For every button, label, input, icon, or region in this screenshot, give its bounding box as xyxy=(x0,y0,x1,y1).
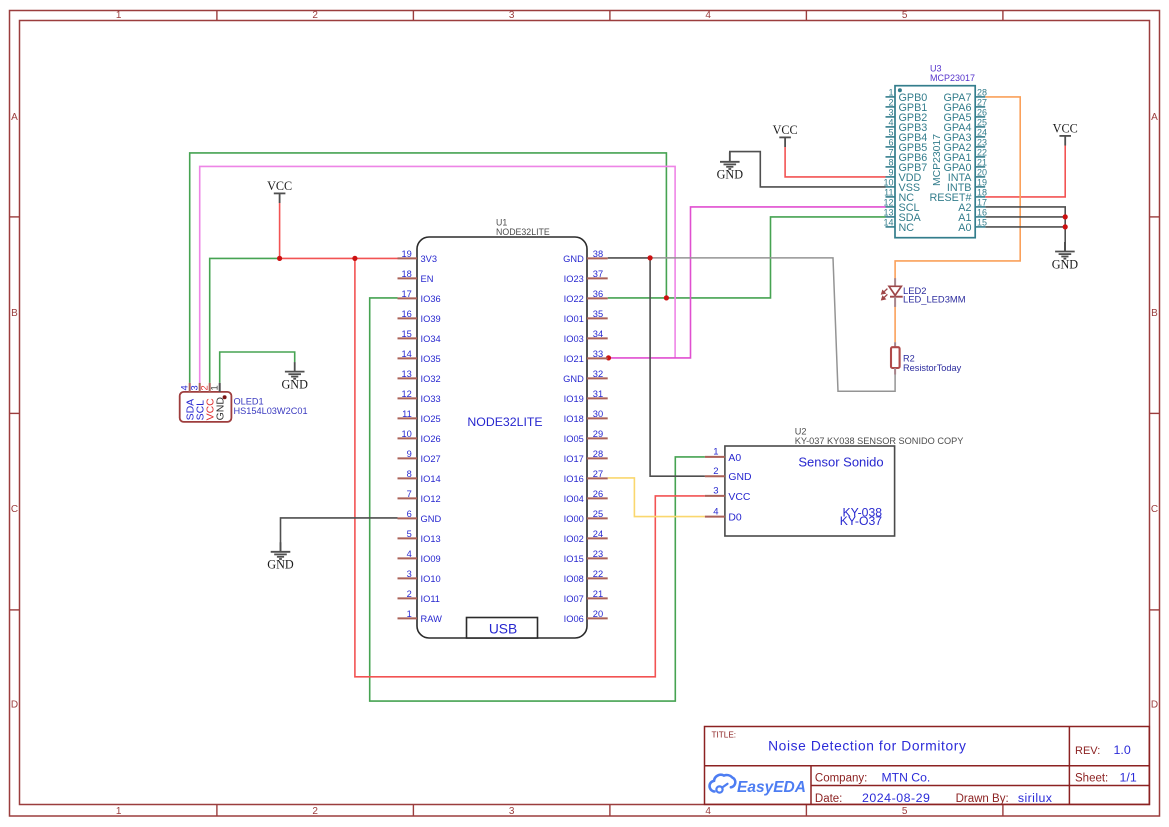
U1 pin 20 (IO06) xyxy=(564,609,608,624)
U3 pin 21 (GPA0) xyxy=(943,158,987,174)
svg-text:4: 4 xyxy=(888,118,893,128)
U1 pin 12 (IO33) xyxy=(398,389,441,404)
svg-text:IO11: IO11 xyxy=(421,594,440,604)
svg-text:19: 19 xyxy=(977,178,987,188)
svg-text:5: 5 xyxy=(888,128,893,138)
svg-text:3: 3 xyxy=(190,385,200,390)
svg-text:Drawn By:: Drawn By: xyxy=(956,793,1009,805)
svg-text:IO25: IO25 xyxy=(421,414,441,424)
svg-text:D: D xyxy=(11,700,18,711)
svg-text:19: 19 xyxy=(401,249,411,259)
U3 pin 28 (GPA7) xyxy=(943,88,987,104)
U3 pin 3 (GPB2) xyxy=(886,108,928,124)
svg-text:B: B xyxy=(1151,308,1158,319)
svg-text:5: 5 xyxy=(407,529,412,539)
frame zone letters left xyxy=(11,112,18,711)
svg-text:16: 16 xyxy=(401,309,411,319)
svg-text:A: A xyxy=(1151,112,1158,123)
svg-text:17: 17 xyxy=(977,198,987,208)
svg-text:IO23: IO23 xyxy=(564,274,584,284)
svg-text:VCC: VCC xyxy=(773,123,798,137)
svg-text:1: 1 xyxy=(888,88,893,98)
U1 pin 3 (IO10) xyxy=(398,569,441,584)
wire net GND dark gray (U1 GND pin 6 to GND symbol) xyxy=(281,518,398,552)
svg-text:7: 7 xyxy=(888,148,893,158)
U3 pin 10 (VSS) xyxy=(883,178,920,194)
svg-text:3: 3 xyxy=(888,108,893,118)
U3 pin 2 (GPB1) xyxy=(886,98,928,114)
power flag VCC (left, above U1 3V3) xyxy=(267,179,292,203)
svg-text:IO17: IO17 xyxy=(564,454,584,464)
wire net GND dark gray (junction down to U2 GND pin 2) xyxy=(650,258,705,476)
svg-text:Sheet:: Sheet: xyxy=(1075,773,1108,785)
svg-text:2: 2 xyxy=(312,806,318,817)
U1 pin 9 (IO27) xyxy=(398,449,441,464)
svg-text:NODE32LITE: NODE32LITE xyxy=(496,227,550,237)
svg-text:C: C xyxy=(11,504,18,515)
wire net GND dark gray (U3 VSS pin 10 to GND symbol) xyxy=(730,152,886,187)
U1 pin 27 (IO16) xyxy=(564,469,608,484)
svg-text:GND: GND xyxy=(421,514,442,524)
junction dot at (608.5,357.9) xyxy=(606,355,611,360)
svg-text:IO00: IO00 xyxy=(564,514,584,524)
U2 pin 1 (A0) xyxy=(705,447,741,464)
svg-text:IO32: IO32 xyxy=(421,374,441,384)
svg-text:IO27: IO27 xyxy=(421,454,441,464)
svg-text:6: 6 xyxy=(888,138,893,148)
svg-text:C: C xyxy=(1151,504,1158,515)
svg-text:18: 18 xyxy=(977,188,987,198)
svg-text:GND: GND xyxy=(1052,257,1079,271)
U3 pin 14 (NC) xyxy=(883,218,914,234)
svg-text:GND: GND xyxy=(215,397,227,421)
svg-text:6: 6 xyxy=(407,509,412,519)
svg-text:GND: GND xyxy=(267,558,294,572)
junction dot at (650.1,257.9) xyxy=(648,255,653,260)
wire net IO36-A0 green (U1 IO36 to U2 A0) xyxy=(370,298,705,701)
U3 pin 24 (GPA3) xyxy=(943,128,987,144)
power flag VCC (middle, to U3 VDD) xyxy=(773,123,798,147)
svg-text:24: 24 xyxy=(977,128,987,138)
svg-text:A0: A0 xyxy=(728,453,741,464)
svg-text:31: 31 xyxy=(593,389,603,399)
U3 pin 17 (A2) xyxy=(958,198,987,214)
title block outline xyxy=(705,727,1150,805)
svg-text:IO10: IO10 xyxy=(421,574,441,584)
U1 pin 33 (IO21) xyxy=(564,349,608,364)
svg-text:15: 15 xyxy=(977,218,987,228)
svg-text:11: 11 xyxy=(884,188,893,198)
svg-text:A0: A0 xyxy=(958,222,971,234)
OLED1 pin 3 (SCL) xyxy=(190,383,207,421)
power flag VCC (right, to U3 RESET#) xyxy=(1053,122,1078,146)
frame zone numbers top xyxy=(116,10,908,21)
svg-text:4: 4 xyxy=(713,506,718,517)
svg-text:26: 26 xyxy=(977,108,987,118)
OLED1 pin 2 (VCC) xyxy=(200,383,217,421)
svg-text:28: 28 xyxy=(593,449,603,459)
U3 pin 6 (GPB5) xyxy=(886,138,928,154)
ground symbol GND (below U1 pin 6) xyxy=(267,542,294,571)
svg-text:2: 2 xyxy=(888,98,893,108)
svg-text:IO33: IO33 xyxy=(421,394,441,404)
U3 pin 27 (GPA6) xyxy=(943,98,987,114)
U1 pin 34 (IO03) xyxy=(564,329,608,344)
svg-text:24: 24 xyxy=(593,529,603,539)
svg-text:20: 20 xyxy=(593,609,603,619)
svg-text:GND: GND xyxy=(563,374,584,384)
svg-text:REV:: REV: xyxy=(1075,745,1100,757)
svg-text:EasyEDA: EasyEDA xyxy=(737,779,806,796)
U1 pin 21 (IO07) xyxy=(564,589,608,604)
svg-text:3V3: 3V3 xyxy=(421,254,438,264)
wire net IO22-SDA green (U1 IO22 to U3 SDA) xyxy=(608,217,886,298)
svg-text:32: 32 xyxy=(593,369,603,379)
U1 pin 11 (IO25) xyxy=(398,409,441,424)
svg-text:B: B xyxy=(11,308,18,319)
U1 pin 28 (IO17) xyxy=(564,449,608,464)
svg-text:1: 1 xyxy=(407,609,412,619)
svg-text:EN: EN xyxy=(421,274,434,284)
svg-text:5: 5 xyxy=(902,10,908,21)
svg-text:MCP23017: MCP23017 xyxy=(932,134,943,186)
svg-text:34: 34 xyxy=(593,329,603,339)
svg-text:21: 21 xyxy=(593,589,603,599)
svg-text:U2: U2 xyxy=(795,427,807,437)
U3 pin 16 (A1) xyxy=(958,208,987,224)
U1 pin 37 (IO23) xyxy=(564,269,608,284)
svg-text:10: 10 xyxy=(883,178,893,188)
svg-text:R2: R2 xyxy=(903,353,915,363)
wire net IO22/SDA-OLED green loop (OLED SDA pin 4 to IO22 junction) xyxy=(190,153,667,383)
svg-text:3: 3 xyxy=(509,806,515,817)
svg-text:11: 11 xyxy=(402,409,412,419)
svg-text:22: 22 xyxy=(593,569,603,579)
wire net VCC red (to U1 3V3 pin 19) xyxy=(280,257,398,259)
svg-text:IO35: IO35 xyxy=(421,354,441,364)
svg-text:USB: USB xyxy=(489,622,517,637)
svg-text:5: 5 xyxy=(902,806,908,817)
svg-text:NC: NC xyxy=(899,222,915,234)
svg-text:1: 1 xyxy=(116,10,122,21)
wire net IO16-D0 yellow (U1 IO16 to U2 D0) xyxy=(608,478,705,517)
svg-text:IO18: IO18 xyxy=(564,414,584,424)
svg-text:VCC: VCC xyxy=(267,179,292,193)
svg-text:29: 29 xyxy=(593,429,603,439)
svg-text:18: 18 xyxy=(401,269,411,279)
svg-text:13: 13 xyxy=(883,208,893,218)
svg-text:1: 1 xyxy=(210,385,220,390)
svg-text:IO22: IO22 xyxy=(564,294,584,304)
svg-text:RAW: RAW xyxy=(421,614,443,624)
svg-text:IO09: IO09 xyxy=(421,554,441,564)
svg-text:IO01: IO01 xyxy=(564,314,584,324)
U1 pin 10 (IO26) xyxy=(398,429,441,444)
U1 pin 36 (IO22) xyxy=(564,289,608,304)
svg-text:2024-08-29: 2024-08-29 xyxy=(862,791,930,805)
EasyEDA logo xyxy=(710,775,806,796)
svg-text:2: 2 xyxy=(713,466,718,477)
wire net GND light gray (junction across and down to R2 bottom) xyxy=(650,258,895,391)
svg-text:A: A xyxy=(11,112,18,123)
svg-text:Sensor Sonido: Sensor Sonido xyxy=(798,455,883,470)
display OLED1 HS154L03W2C01 body xyxy=(180,392,308,422)
svg-text:NODE32LITE: NODE32LITE xyxy=(467,415,542,429)
svg-text:TITLE:: TITLE: xyxy=(712,731,737,740)
svg-text:23: 23 xyxy=(593,549,603,559)
wire net VCC red (down and along bottom to U2 VCC pin 3) xyxy=(355,258,705,676)
svg-text:IO06: IO06 xyxy=(564,614,584,624)
svg-text:38: 38 xyxy=(593,249,603,259)
U1 pin 38 (GND) xyxy=(563,249,608,264)
U1 pin 15 (IO34) xyxy=(398,329,441,344)
svg-text:25: 25 xyxy=(593,509,603,519)
U1 pin 1 (RAW) xyxy=(398,609,443,624)
U1 pin 32 (GND) xyxy=(563,369,608,384)
svg-text:9: 9 xyxy=(407,449,412,459)
svg-text:GND: GND xyxy=(281,377,308,391)
U3 pin 20 (INTA) xyxy=(948,168,987,184)
OLED1 pin 4 (SDA) xyxy=(180,383,197,421)
svg-text:22: 22 xyxy=(977,148,987,158)
U1 pin 7 (IO12) xyxy=(398,489,441,504)
svg-text:10: 10 xyxy=(401,429,411,439)
U3 pin 1 (GPB0) xyxy=(886,88,928,104)
LED LED2 LED_LED3MM xyxy=(882,278,966,307)
U1 pin 23 (IO15) xyxy=(564,549,608,564)
svg-text:IO26: IO26 xyxy=(421,434,441,444)
U1 pin 2 (IO11) xyxy=(398,589,440,604)
svg-text:Date:: Date: xyxy=(815,793,843,805)
svg-text:sirilux: sirilux xyxy=(1018,791,1053,805)
U1 pin 5 (IO13) xyxy=(398,529,441,544)
module U1 NODE32LITE body xyxy=(417,218,587,639)
svg-text:7: 7 xyxy=(407,489,412,499)
wire net GND dark gray (U3 A1 pin 16) xyxy=(985,216,1065,218)
svg-text:IO08: IO08 xyxy=(564,574,584,584)
junction dot at (354.9,258.4) xyxy=(352,256,357,261)
svg-text:28: 28 xyxy=(977,88,987,98)
U1 pin 35 (IO01) xyxy=(564,309,608,324)
svg-text:U1: U1 xyxy=(496,218,507,228)
U3 pin 12 (SCL) xyxy=(883,198,919,214)
svg-text:27: 27 xyxy=(977,98,987,108)
U2 pin 4 (D0) xyxy=(705,506,742,523)
svg-text:3: 3 xyxy=(713,486,718,497)
svg-text:IO34: IO34 xyxy=(421,334,441,344)
junction dot at (666.4,297.9) xyxy=(664,295,669,300)
svg-text:27: 27 xyxy=(593,469,603,479)
svg-text:2: 2 xyxy=(312,10,318,21)
svg-text:1: 1 xyxy=(713,447,718,458)
svg-text:3: 3 xyxy=(407,569,412,579)
U1 pin 30 (IO18) xyxy=(564,409,608,424)
svg-text:1/1: 1/1 xyxy=(1120,771,1137,785)
resistor R2 ResistorToday xyxy=(891,342,962,374)
junction dot at (279.6,258.4) xyxy=(277,256,282,261)
svg-text:VCC: VCC xyxy=(728,492,750,503)
svg-text:IO05: IO05 xyxy=(564,434,584,444)
svg-text:33: 33 xyxy=(593,349,603,359)
U1 USB connector box xyxy=(467,618,538,639)
U3 pin 19 (INTB) xyxy=(947,178,987,194)
svg-text:37: 37 xyxy=(593,269,603,279)
U3 pin 9 (VDD) xyxy=(886,168,922,184)
svg-text:KY-037 KY038 SENSOR SONIDO COP: KY-037 KY038 SENSOR SONIDO COPY xyxy=(795,436,964,446)
U1 pin 31 (IO19) xyxy=(564,389,608,404)
U2 pin 3 (VCC) xyxy=(705,486,751,503)
wire net GND-OLED green (OLED GND pin 1 to GND symbol) xyxy=(220,352,295,383)
U3 pin 11 (NC) xyxy=(884,188,914,204)
wire net VCC-OLED green (OLED VCC pin 2 up to 3V3 net) xyxy=(210,258,280,383)
OLED1 pin 1 (GND) xyxy=(210,383,227,421)
U1 pin 14 (IO35) xyxy=(398,349,441,364)
svg-text:14: 14 xyxy=(883,218,893,228)
svg-text:KY-O37: KY-O37 xyxy=(840,514,882,528)
U1 pin 29 (IO05) xyxy=(564,429,608,444)
svg-text:IO12: IO12 xyxy=(421,494,441,504)
frame zone numbers bottom xyxy=(116,806,908,817)
U3 pin 18 (RESET#) xyxy=(929,188,987,204)
wire net SCL light pink (OLED SCL pin 3 loop to IO21) xyxy=(200,166,675,383)
svg-text:13: 13 xyxy=(401,369,411,379)
svg-text:IO02: IO02 xyxy=(564,534,584,544)
U1 pin 22 (IO08) xyxy=(564,569,608,584)
U3 pin 13 (SDA) xyxy=(883,208,921,224)
U3 pin 25 (GPA4) xyxy=(943,118,987,134)
svg-text:LED_LED3MM: LED_LED3MM xyxy=(903,294,966,305)
U2 pin 2 (GND) xyxy=(705,466,752,483)
svg-text:17: 17 xyxy=(401,289,411,299)
svg-text:IO04: IO04 xyxy=(564,494,584,504)
svg-text:26: 26 xyxy=(593,489,603,499)
wire net VCC red (middle VCC symbol to U3 VDD pin 9) xyxy=(785,147,885,177)
svg-text:Company:: Company: xyxy=(815,773,867,785)
svg-text:2: 2 xyxy=(200,385,210,390)
svg-text:IO14: IO14 xyxy=(421,474,441,484)
U3 pin 7 (GPB6) xyxy=(886,148,928,164)
svg-text:ResistorToday: ResistorToday xyxy=(903,363,962,373)
svg-text:IO19: IO19 xyxy=(564,394,584,404)
svg-text:20: 20 xyxy=(977,168,987,178)
svg-text:1: 1 xyxy=(116,806,122,817)
svg-text:GND: GND xyxy=(717,168,744,182)
U1 pin 25 (IO00) xyxy=(564,509,608,524)
U1 pin 16 (IO39) xyxy=(398,309,441,324)
svg-text:IO36: IO36 xyxy=(421,294,441,304)
junction dot at (1065.2,226.9) xyxy=(1063,224,1068,229)
U3 pin 22 (GPA1) xyxy=(943,148,987,164)
svg-text:15: 15 xyxy=(401,329,411,339)
U3 pin 4 (GPB3) xyxy=(886,118,928,134)
wire net GND dark gray (U3 A0 pin 15) xyxy=(985,226,1065,228)
svg-text:4: 4 xyxy=(407,549,412,559)
svg-text:HS154L03W2C01: HS154L03W2C01 xyxy=(234,406,308,416)
module U2 KY-037 sound sensor body xyxy=(725,427,963,537)
svg-text:8: 8 xyxy=(888,158,893,168)
wire net GND dark gray (U1 GND pin 38 to junction) xyxy=(608,257,650,259)
svg-text:Noise Detection for Dormitory: Noise Detection for Dormitory xyxy=(768,738,966,753)
svg-text:4: 4 xyxy=(180,385,190,390)
U3 pin 23 (GPA2) xyxy=(943,138,987,154)
svg-text:GND: GND xyxy=(563,254,584,264)
ground symbol GND (near OLED1) xyxy=(281,362,308,391)
svg-text:D0: D0 xyxy=(728,513,742,524)
svg-text:MCP23017: MCP23017 xyxy=(930,73,975,83)
IC U3 MCP23017 body xyxy=(895,64,975,238)
svg-text:3: 3 xyxy=(509,10,515,21)
U1 pin 8 (IO14) xyxy=(398,469,441,484)
svg-text:IO21: IO21 xyxy=(564,354,584,364)
svg-text:IO16: IO16 xyxy=(564,474,584,484)
U1 pin 26 (IO04) xyxy=(564,489,608,504)
svg-text:VCC: VCC xyxy=(1053,122,1078,136)
junction dot at (1065.2,216.9) xyxy=(1063,214,1068,219)
svg-text:IO07: IO07 xyxy=(564,594,584,604)
frame zone letters right xyxy=(1151,112,1158,711)
U1 pin 17 (IO36) xyxy=(398,289,441,304)
U3 pin 15 (A0) xyxy=(958,218,987,234)
svg-text:IO15: IO15 xyxy=(564,554,584,564)
U3 pin 8 (GPB7) xyxy=(886,158,928,174)
wire net VCC red (left VCC symbol drop) xyxy=(279,203,281,258)
svg-text:1.0: 1.0 xyxy=(1114,743,1131,757)
svg-text:D: D xyxy=(1151,700,1158,711)
svg-text:IO03: IO03 xyxy=(564,334,584,344)
U1 pin 4 (IO09) xyxy=(398,549,441,564)
wire net VCC red (right VCC symbol to U3 RESET# pin 18) xyxy=(985,146,1065,197)
wire net GND dark gray (U3 A2 pin 17 to GND symbol) xyxy=(985,207,1065,252)
ground symbol GND (right, A0/A1/A2 net) xyxy=(1052,242,1079,271)
svg-text:4: 4 xyxy=(705,10,711,21)
svg-text:16: 16 xyxy=(977,208,987,218)
svg-text:IO39: IO39 xyxy=(421,314,441,324)
U3 pin 5 (GPB4) xyxy=(886,128,928,144)
svg-text:21: 21 xyxy=(977,158,987,168)
svg-text:IO13: IO13 xyxy=(421,534,441,544)
svg-text:8: 8 xyxy=(407,469,412,479)
U1 pin 18 (EN) xyxy=(398,269,434,284)
svg-text:25: 25 xyxy=(977,118,987,128)
wire net LED-R orange (LED2 cathode to R2 top) xyxy=(894,305,896,342)
ground symbol GND (left of U3, VSS net) xyxy=(717,152,744,181)
wire net GPA7 orange (U3 GPA7 pin 28 to LED2 anode) xyxy=(895,97,1020,279)
svg-text:14: 14 xyxy=(401,349,411,359)
U1 pin 13 (IO32) xyxy=(398,369,441,384)
U1 pin 19 (3V3) xyxy=(398,249,438,264)
U1 pin 6 (GND) xyxy=(398,509,442,524)
wire net SCL magenta (U1 IO21 pin 33 to U3 SCL pin 12) xyxy=(608,207,886,358)
svg-text:30: 30 xyxy=(593,409,603,419)
svg-text:36: 36 xyxy=(593,289,603,299)
svg-text:12: 12 xyxy=(401,389,411,399)
svg-text:4: 4 xyxy=(705,806,711,817)
svg-text:12: 12 xyxy=(883,198,893,208)
svg-text:MTN Co.: MTN Co. xyxy=(882,771,931,785)
svg-text:GND: GND xyxy=(728,472,751,483)
svg-text:35: 35 xyxy=(593,309,603,319)
svg-text:23: 23 xyxy=(977,138,987,148)
U1 pin 24 (IO02) xyxy=(564,529,608,544)
svg-text:2: 2 xyxy=(407,589,412,599)
U3 pin 26 (GPA5) xyxy=(943,108,987,124)
svg-text:9: 9 xyxy=(888,168,893,178)
